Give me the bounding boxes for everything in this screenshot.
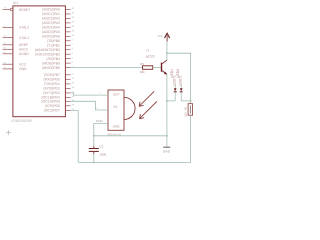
pin PA5 (35) [42,30,74,34]
svg-text:(MISO)PB6: (MISO)PB6 [42,66,60,70]
pin PB1 (2) [47,43,73,47]
svg-text:40: 40 [72,7,74,10]
svg-text:(ADC1)PA1: (ADC1)PA1 [42,12,60,16]
svg-text:(T1)PB1: (T1)PB1 [47,43,60,47]
svg-text:6: 6 [72,61,73,64]
svg-text:(SS)PB4: (SS)PB4 [46,57,60,61]
svg-text:37: 37 [72,21,74,24]
pin PA2 (38) [42,16,74,20]
wire VCC node to right drop [167,53,191,103]
svg-text:(ADC2)PA2: (ADC2)PA2 [42,17,60,21]
svg-text:(ADC4)PA4: (ADC4)PA4 [42,25,60,29]
junction VCC node [166,52,168,54]
pin XTAL1 (13) [3,35,30,40]
wire LED1 to emitter line [167,97,175,105]
svg-text:220: 220 [184,112,187,116]
pin PD2 (16) [43,86,74,90]
svg-text:GND: GND [96,120,103,123]
junction R3 top [190,100,192,102]
svg-text:(SCK)PB7: (SCK)PB7 [44,73,60,77]
pin PD4 (18) [41,95,74,99]
svg-text:AREF: AREF [19,43,28,47]
svg-text:R3: R3 [184,107,187,110]
svg-text:20: 20 [72,104,74,107]
transistor T1 BC337 [161,60,167,75]
pin PD0 (14) [43,77,73,81]
svg-text:(INT1)PD3: (INT1)PD3 [43,91,60,95]
svg-text:10: 10 [3,61,5,64]
svg-text:AGND: AGND [19,52,29,56]
junction cap branch [93,135,95,137]
IR arrow 1 [139,91,154,106]
LED LED2 [180,84,183,101]
svg-text:IC1: IC1 [13,1,18,5]
pin PB2 (3) [35,47,73,51]
pin PB6 (7) [42,65,73,69]
pin PB7 (8) [44,73,73,77]
IC IC2 SFH5110 body [108,90,135,130]
svg-text:(T0)PB0: (T0)PB0 [47,39,60,43]
svg-text:(OC2)PD7: (OC2)PD7 [44,109,60,113]
wire PB5 to R1 [71,64,143,72]
junction cap rail [93,162,95,164]
svg-text:(ADC6)PA6: (ADC6)PA6 [42,34,60,38]
svg-text:39: 39 [72,12,74,15]
ground GND symbol [163,142,170,153]
pin RESET (9) [3,7,31,12]
wire R3 bottom to rail [187,115,195,162]
pin PD3 (17) [43,91,74,95]
svg-text:36: 36 [72,25,74,28]
svg-text:VCC: VCC [158,34,163,37]
wire PD4 jog down to rail [71,110,79,162]
pin PD5 (19) [41,99,74,103]
svg-text:2: 2 [97,107,98,110]
svg-text:30: 30 [3,46,5,49]
svg-text:38: 38 [72,16,74,19]
svg-text:AVCC: AVCC [19,48,28,52]
svg-text:AT90S8535P: AT90S8535P [11,119,32,123]
svg-text:(TXD)PD1: (TXD)PD1 [44,82,60,86]
svg-text:C1: C1 [99,145,103,149]
svg-text:34: 34 [72,34,74,37]
svg-text:(INT0)PD2: (INT0)PD2 [43,87,60,91]
pin XTAL2 (12) [3,25,30,30]
svg-text:(OC1A)PD5: (OC1A)PD5 [41,99,60,103]
svg-text:15: 15 [72,82,74,85]
svg-text:32: 32 [3,42,5,45]
svg-text:14: 14 [72,77,74,80]
pin GND (11) [3,66,27,71]
svg-text:VCC: VCC [19,63,26,67]
svg-text:T1: T1 [146,49,150,52]
pin PD7 (21) [44,108,74,112]
power VCC arrow [165,33,170,41]
svg-text:GND: GND [19,67,27,71]
svg-text:31: 31 [3,51,5,54]
svg-text:3: 3 [72,47,73,50]
capacitor C1 [89,146,99,162]
resistor R3 [188,104,193,116]
resistor R1 [143,66,161,70]
svg-text:11: 11 [4,66,6,69]
IC IC1 MEGA16-P body [13,6,66,117]
wire emitter down to ground [163,74,171,146]
svg-text:(ADC5)PA5: (ADC5)PA5 [42,30,60,34]
junction emitter branch [166,135,168,137]
svg-text:8: 8 [72,73,73,76]
pin PA4 (36) [42,25,74,29]
svg-text:12: 12 [3,25,5,28]
svg-text:XTAL2: XTAL2 [19,26,29,30]
svg-text:VS: VS [113,105,117,109]
wire LED2 to R3 drop [181,97,190,105]
svg-text:BC337: BC337 [146,55,155,58]
pin AREF (32) [3,42,29,47]
svg-text:4: 4 [72,52,73,55]
svg-text:35: 35 [72,30,74,33]
svg-text:2: 2 [72,43,73,46]
svg-text:RESET: RESET [19,8,30,12]
wire VCC stem [163,42,171,61]
svg-text:(OC1B)PD4: (OC1B)PD4 [41,96,60,100]
pin PB0 (1) [47,38,73,42]
svg-text:GND: GND [163,150,170,154]
pin VCC (10) [3,61,27,66]
pin AGND (31) [3,51,29,56]
svg-text:9: 9 [5,7,6,10]
svg-text:OUT: OUT [113,93,120,97]
svg-text:XTAL1: XTAL1 [19,36,29,40]
pin PA6 (34) [42,34,74,38]
IR arrow 2 [140,102,157,119]
wire INT1 to SFH OUT [71,93,108,95]
pin PB3 (4) [35,52,73,56]
svg-text:100n: 100n [99,153,106,157]
svg-text:5: 5 [72,56,73,59]
svg-text:16: 16 [72,86,74,89]
svg-text:(MOSI)PB5: (MOSI)PB5 [42,61,60,65]
svg-text:13: 13 [3,35,5,38]
pin PD1 (15) [44,82,74,86]
pin PA3 (37) [42,21,74,25]
pin PB4 (5) [46,56,72,60]
svg-text:10k: 10k [140,70,145,73]
junction emitter LED1 [166,100,168,102]
svg-text:R1: R1 [140,62,144,65]
pin PB5 (6) [42,61,73,65]
LED LED1 [174,84,177,101]
svg-text:LD271: LD271 [178,75,182,85]
wire GND branch [94,132,167,140]
wire SFH GND pin [94,124,108,147]
pin AVCC (30) [3,46,29,51]
pin PD6 (20) [45,104,74,108]
origin cross [6,130,11,135]
svg-text:(ICP)PD6: (ICP)PD6 [45,104,60,108]
pin PA1 (39) [42,12,74,16]
pin PA0 (40) [42,7,74,11]
svg-text:(ADC0)PA0: (ADC0)PA0 [42,8,60,12]
svg-text:(RXD)PD0: (RXD)PD0 [43,77,60,81]
wire INT1 to SFH VS [71,101,108,110]
wire bottom rail [78,158,190,166]
svg-text:(AIN1/OC0)PB3: (AIN1/OC0)PB3 [35,52,60,56]
svg-text:1: 1 [100,92,101,95]
svg-text:GND: GND [113,124,120,128]
svg-text:1: 1 [72,38,73,41]
svg-text:(AIN0/INT2)PB2: (AIN0/INT2)PB2 [35,48,60,52]
svg-text:(ADC3)PA3: (ADC3)PA3 [42,21,60,25]
